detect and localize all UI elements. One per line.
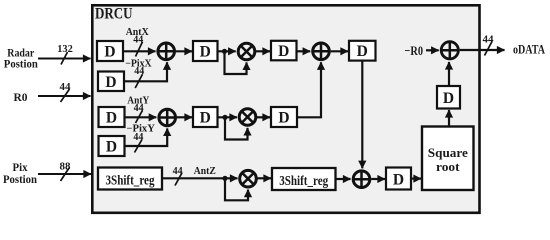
- wire D11 up to adder A5 bottom: [448, 62, 450, 86]
- net label -PixX: [125, 58, 152, 69]
- net label -PixY: [126, 124, 155, 135]
- register D3: [193, 41, 218, 61]
- wire D4 to adder A2: [297, 50, 311, 52]
- wire adder A1 to register D3: [176, 50, 192, 52]
- bus width label 44 (oDATA): [483, 35, 495, 56]
- wire D7 to adder A3 bottom: [125, 128, 168, 146]
- wire SR1 to multiplier M3 with junction: [162, 177, 238, 179]
- bus width label 44 (AntY): [134, 103, 144, 123]
- wire D10 to Square root unit: [411, 178, 421, 180]
- svg-text:−R0: −R0: [405, 43, 424, 58]
- junction node J1: [222, 49, 227, 54]
- svg-text:D: D: [393, 171, 404, 188]
- register D1 (AntX): [97, 41, 123, 61]
- svg-text:3Shift_reg: 3Shift_reg: [279, 174, 328, 189]
- svg-text:D: D: [106, 139, 117, 156]
- svg-text:D: D: [200, 110, 211, 127]
- wire adder A5 to oDATA output: [460, 49, 505, 51]
- output label oDATA: [513, 43, 545, 57]
- wire D5 down to adder A4 top: [361, 61, 363, 169]
- bus width label 44 (AntX): [133, 34, 143, 56]
- svg-text:D: D: [104, 44, 115, 61]
- input label R0: [14, 92, 28, 104]
- net label AntZ: [194, 166, 216, 177]
- junction node J2: [222, 115, 227, 120]
- svg-text:44: 44: [483, 35, 495, 46]
- multiplier M3: [240, 170, 257, 187]
- shift register SR2 (3Shift_reg): [272, 168, 336, 190]
- wire D1 to adder A1: [123, 50, 156, 52]
- function unit U1 Square root: [422, 127, 474, 191]
- wire feedback J1 to multiplier M1 bottom: [225, 51, 247, 74]
- svg-text:44: 44: [134, 66, 144, 77]
- wire D2 to adder A1 bottom: [124, 62, 167, 81]
- register D7 (-PixY): [99, 136, 125, 156]
- svg-text:D: D: [105, 74, 116, 91]
- wire multiplier M2 to register D9: [256, 116, 270, 118]
- net label AntY: [127, 96, 150, 107]
- adder A3: [158, 108, 177, 127]
- DRCU block enclosure: [92, 5, 479, 213]
- DRCU label: [95, 6, 133, 23]
- net label AntX: [126, 27, 150, 38]
- bus width label 88: [60, 162, 71, 181]
- svg-text:D: D: [278, 110, 289, 127]
- wire D6 to adder A3: [125, 116, 157, 118]
- svg-text:44: 44: [60, 82, 72, 93]
- bus width label 44 (AntZ): [173, 166, 183, 186]
- wire Pix Postion input arrow: [38, 173, 91, 175]
- wire Square root up to register D11: [448, 110, 450, 127]
- svg-text:R0: R0: [14, 92, 28, 104]
- wire multiplier M1 to register D4: [255, 50, 270, 52]
- wire Radar Postion input arrow: [38, 58, 91, 60]
- register D4: [271, 41, 297, 61]
- svg-text:DRCU: DRCU: [95, 6, 133, 23]
- wire SR2 to adder A4: [336, 178, 351, 180]
- wire adder A4 to register D10: [371, 178, 385, 180]
- wire R0 input arrow: [38, 95, 91, 97]
- wire feedback J3 to multiplier M3 bottom: [225, 178, 248, 200]
- bus width label 44 (R0 input): [60, 82, 72, 102]
- wire D9 up to adder A2 bottom: [297, 62, 321, 117]
- bus width label 44 (-PixX): [134, 66, 144, 88]
- svg-text:Pix: Pix: [13, 162, 28, 174]
- svg-text:Radar: Radar: [7, 47, 34, 59]
- register D11: [437, 86, 460, 109]
- wire adder A3 to register D8: [177, 116, 192, 118]
- junction node J3: [222, 176, 227, 181]
- adder A4: [352, 170, 371, 189]
- svg-text:3Shift_reg: 3Shift_reg: [106, 173, 155, 188]
- wire D8 to multiplier M2 with junction: [218, 116, 238, 118]
- multiplier M2: [239, 109, 256, 126]
- svg-text:88: 88: [60, 162, 71, 173]
- register D8: [193, 107, 218, 127]
- bus width label 44 (-PixY): [133, 132, 143, 153]
- svg-text:D: D: [357, 43, 368, 60]
- svg-text:132: 132: [57, 44, 73, 55]
- register D2 (-PixX): [98, 72, 124, 92]
- svg-text:D: D: [200, 44, 211, 61]
- wire adder A2 to register D5: [331, 50, 348, 52]
- wire -R0 to adder A5: [426, 49, 439, 51]
- adder A2: [312, 42, 331, 61]
- svg-text:AntZ: AntZ: [194, 166, 216, 177]
- input label Radar Postion: [4, 47, 39, 70]
- svg-text:Postion: Postion: [3, 174, 38, 186]
- input label Pix Postion: [3, 162, 38, 186]
- svg-text:44: 44: [133, 132, 143, 143]
- wire feedback J2 to multiplier M2 bottom: [225, 117, 248, 139]
- svg-text:Postion: Postion: [4, 59, 39, 71]
- svg-text:oDATA: oDATA: [513, 43, 545, 57]
- svg-text:Square: Square: [428, 145, 468, 160]
- adder A5 (output): [440, 41, 460, 61]
- wire D3 to multiplier M1 with junction: [218, 50, 236, 52]
- svg-text:root: root: [436, 159, 460, 174]
- wire multiplier M3 to shift register SR2: [257, 177, 272, 179]
- bus width label 132: [57, 44, 73, 65]
- register D9: [271, 107, 297, 127]
- register D5: [349, 41, 376, 61]
- multiplier M1: [238, 43, 255, 60]
- register D6 (AntY): [99, 107, 125, 127]
- svg-text:D: D: [106, 110, 117, 127]
- register D10: [386, 168, 411, 190]
- svg-text:D: D: [278, 43, 289, 60]
- net label -R0: [405, 43, 424, 58]
- adder A1: [157, 42, 176, 61]
- shift register SR1 (3Shift_reg): [98, 168, 162, 190]
- svg-text:D: D: [443, 90, 454, 107]
